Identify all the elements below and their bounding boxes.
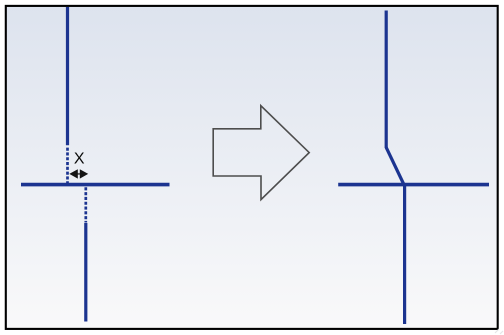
wire W6 vertical lower from junction (right figure) bbox=[403, 184, 406, 324]
wire W4 jog segment joining node (right figure) bbox=[386, 147, 404, 186]
wire W5 horizontal (right figure) bbox=[338, 183, 489, 187]
block arrow (transformation) bbox=[213, 106, 309, 200]
faint corner mark (page artifact) bbox=[495, 329, 503, 334]
dimension arrow for X bbox=[69, 169, 88, 178]
wire W3 dashed misaligned end lower (left figure) bbox=[84, 187, 87, 222]
wire W2 horizontal (left figure) bbox=[21, 183, 170, 187]
wire W1 dashed misaligned end (left figure) bbox=[66, 148, 69, 184]
wire W3 vertical lower solid (left figure) bbox=[84, 223, 87, 322]
svg-text:X: X bbox=[74, 151, 85, 168]
wire W4 vertical upper (right figure) bbox=[385, 11, 388, 149]
wire W1 vertical upper solid (left figure) bbox=[66, 7, 69, 145]
